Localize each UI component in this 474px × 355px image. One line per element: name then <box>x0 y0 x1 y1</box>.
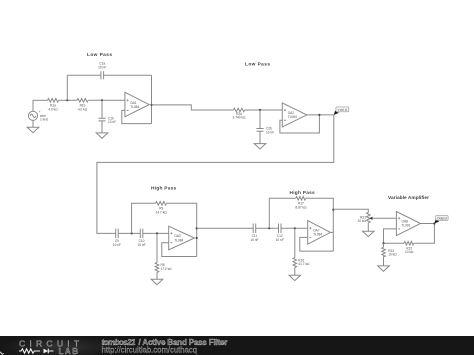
svg-text:TL084: TL084 <box>313 233 322 237</box>
svg-text:14.7 kΩ: 14.7 kΩ <box>156 210 168 214</box>
svg-text:41.7 kΩ: 41.7 kΩ <box>298 262 310 266</box>
svg-text:High Pass: High Pass <box>151 185 177 191</box>
svg-text:1 kHz: 1 kHz <box>40 118 49 122</box>
svg-text:10 nF: 10 nF <box>108 120 116 124</box>
svg-text:10 nF: 10 nF <box>137 243 145 247</box>
svg-text:High Pass: High Pass <box>290 190 316 196</box>
svg-text:8.87 kΩ: 8.87 kΩ <box>295 205 307 209</box>
svg-text:TL084: TL084 <box>288 115 297 119</box>
svg-text:10 nF: 10 nF <box>98 66 106 70</box>
svg-text:10 kΩ: 10 kΩ <box>405 250 414 254</box>
svg-text:Output: Output <box>437 216 447 220</box>
svg-text:3.740 kΩ: 3.740 kΩ <box>233 116 246 120</box>
svg-text:Low Pass: Low Pass <box>245 62 270 68</box>
svg-text:http://circuitlab.com/cuthacq: http://circuitlab.com/cuthacq <box>102 345 198 354</box>
svg-text:10 nF: 10 nF <box>250 238 258 242</box>
svg-text:4.0 kΩ: 4.0 kΩ <box>48 107 58 111</box>
svg-text:Low Pass: Low Pass <box>87 52 112 58</box>
svg-text:10 nF: 10 nF <box>266 130 274 134</box>
svg-text:TL081: TL081 <box>402 224 411 228</box>
svg-text:vmid: vmid <box>338 108 347 112</box>
svg-text:10 kΩ: 10 kΩ <box>388 253 397 257</box>
svg-text:10 kΩ: 10 kΩ <box>358 219 367 223</box>
svg-text:TL084: TL084 <box>174 238 183 242</box>
svg-text:10 nF: 10 nF <box>276 238 284 242</box>
svg-text:Variable Amplifier: Variable Amplifier <box>388 195 429 201</box>
svg-text:LAB: LAB <box>59 347 79 355</box>
svg-text:4.0 kΩ: 4.0 kΩ <box>78 107 88 111</box>
svg-text:10 nF: 10 nF <box>113 243 121 247</box>
svg-text:17.2 kΩ: 17.2 kΩ <box>161 267 173 271</box>
svg-text:TL084: TL084 <box>130 105 139 109</box>
